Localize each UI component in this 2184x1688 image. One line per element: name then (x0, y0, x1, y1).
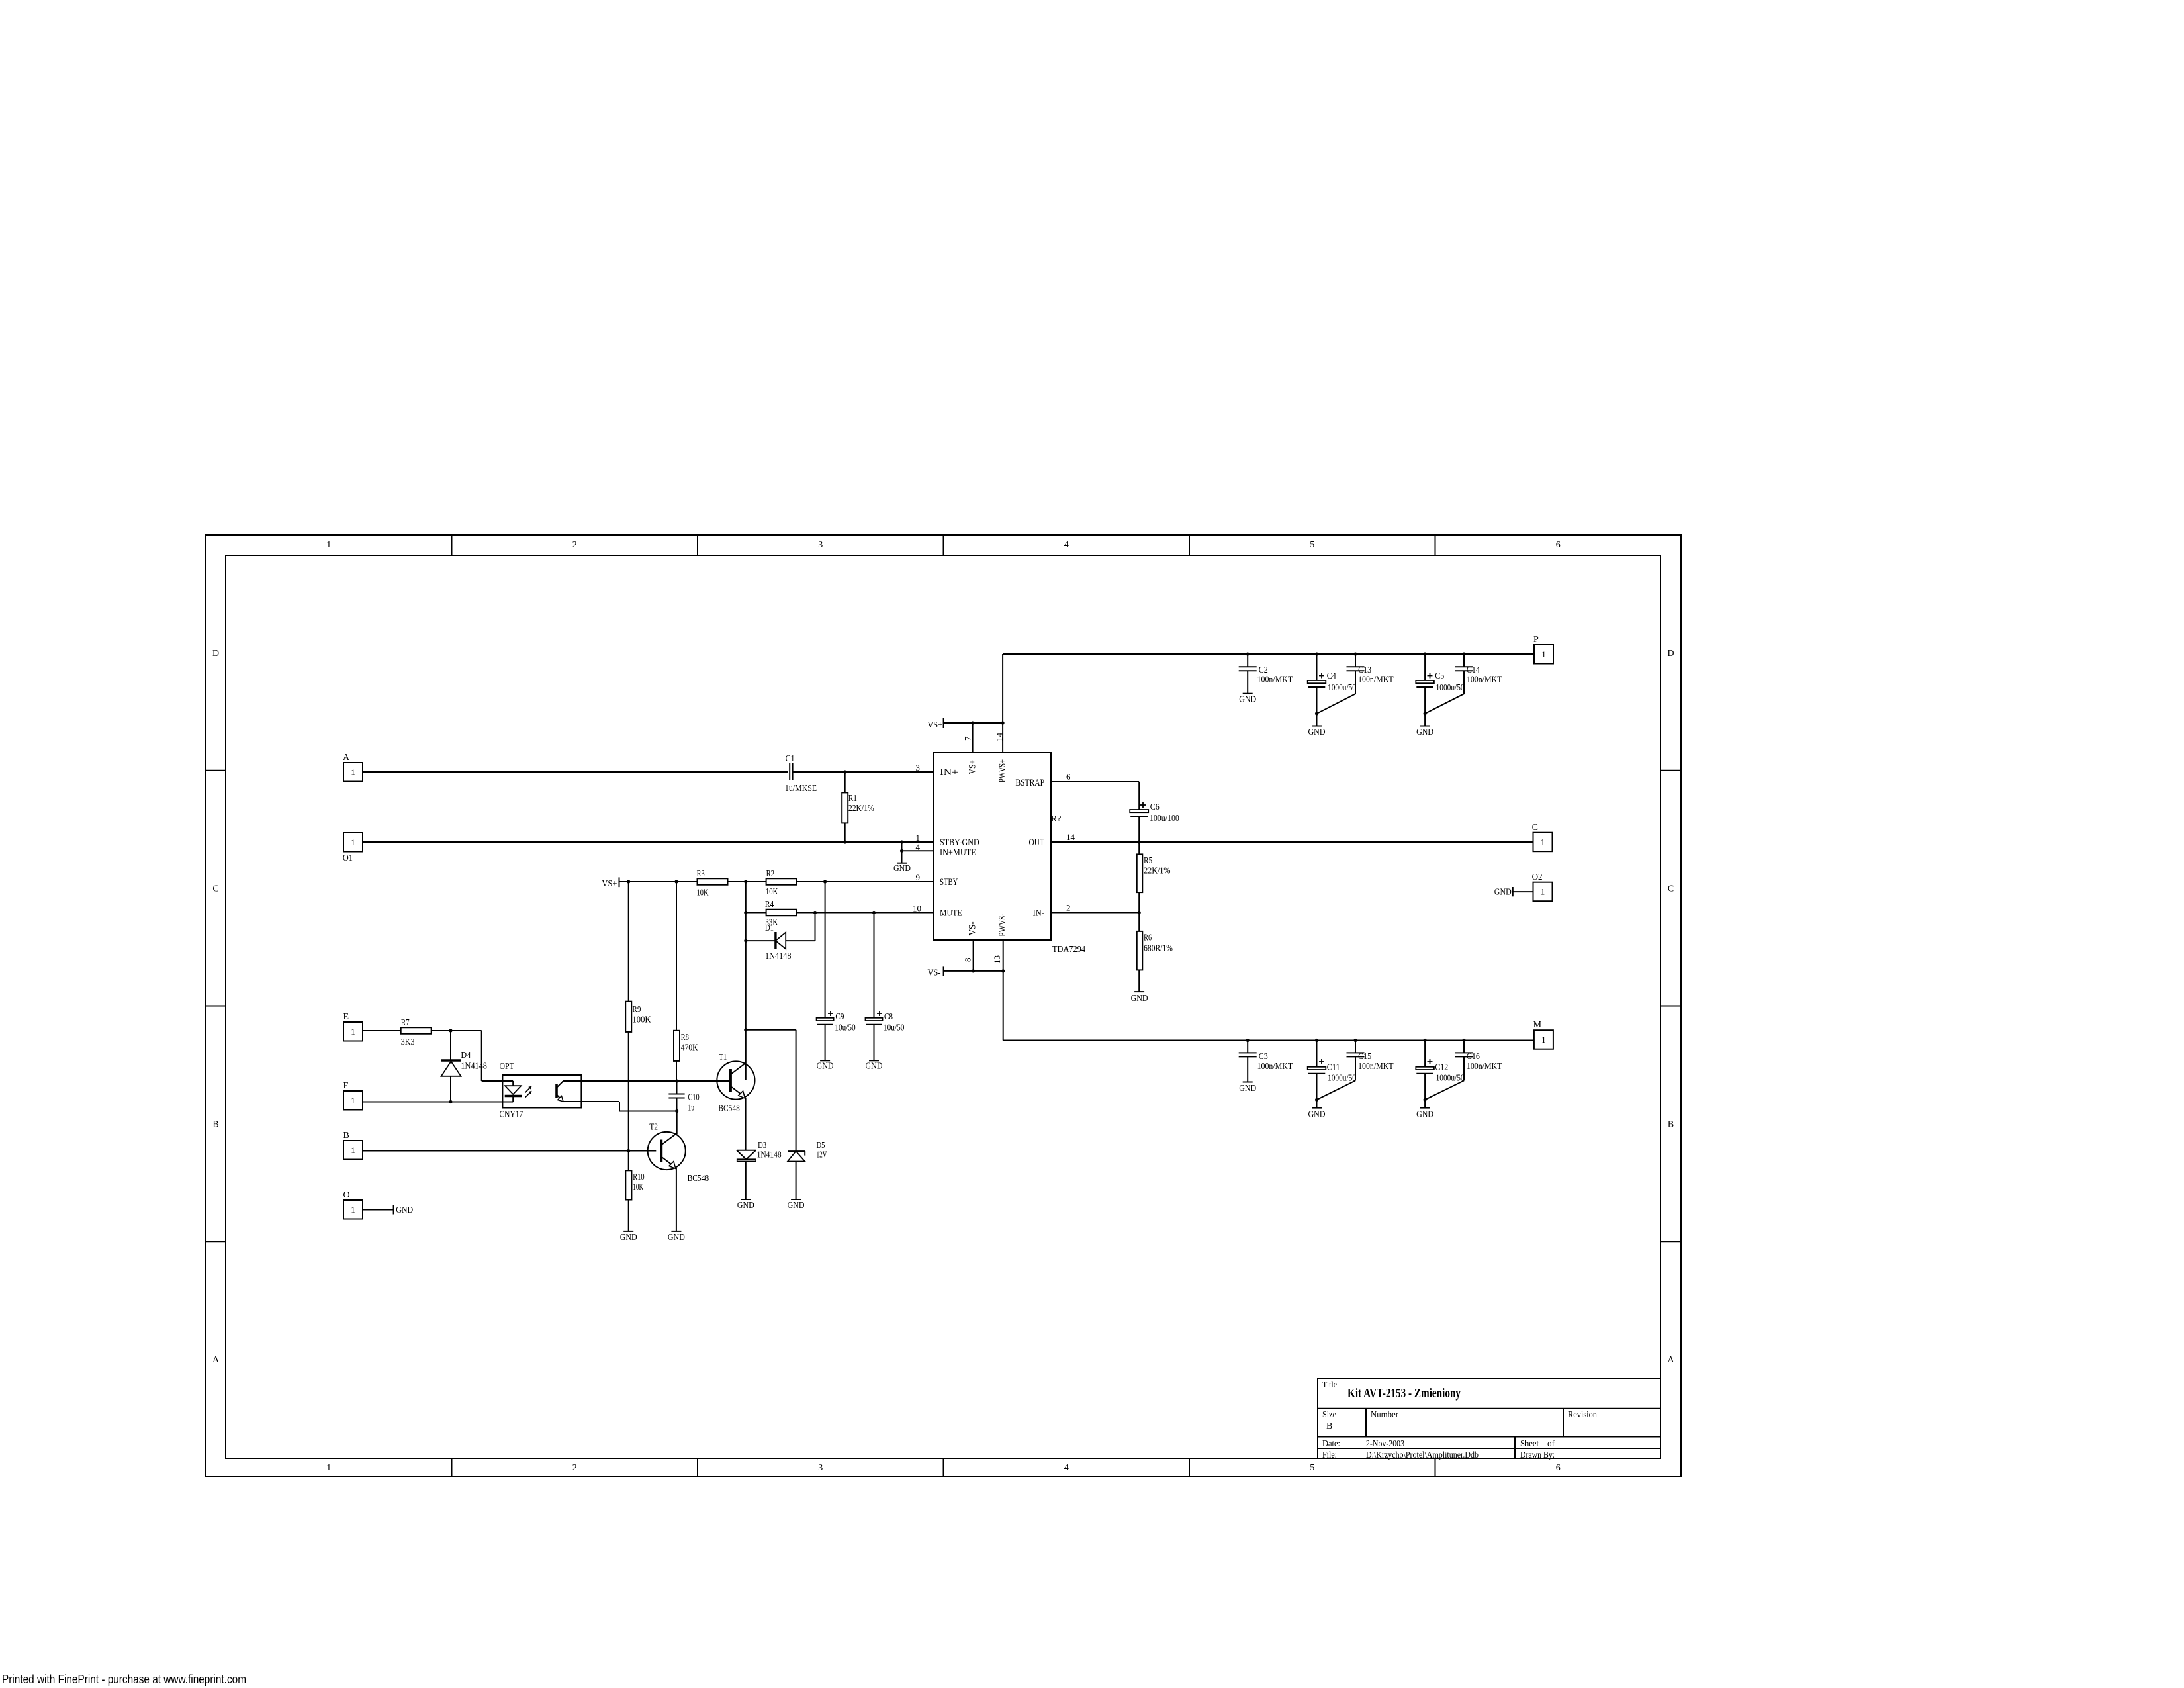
svg-text:3K3: 3K3 (401, 1037, 415, 1047)
svg-text:C1: C1 (786, 754, 795, 764)
svg-text:P: P (1533, 635, 1539, 645)
svg-text:BSTRAP: BSTRAP (1016, 778, 1045, 788)
svg-text:D: D (1667, 649, 1674, 659)
svg-text:Title: Title (1322, 1380, 1337, 1390)
svg-text:6: 6 (1066, 772, 1071, 782)
svg-text:100u/100: 100u/100 (1150, 814, 1179, 823)
svg-text:14: 14 (994, 733, 1004, 742)
svg-text:1000u/50: 1000u/50 (1436, 683, 1465, 693)
svg-text:D5: D5 (817, 1141, 825, 1150)
svg-text:100K: 100K (632, 1015, 651, 1025)
svg-text:E: E (343, 1012, 349, 1022)
svg-text:IN+MUTE: IN+MUTE (940, 847, 976, 858)
svg-text:1000u/50: 1000u/50 (1328, 1074, 1356, 1084)
svg-text:1u: 1u (688, 1103, 694, 1113)
svg-text:D:\Krzycho\Protel\Amplituner.D: D:\Krzycho\Protel\Amplituner.Ddb (1366, 1450, 1479, 1460)
svg-text:680R/1%: 680R/1% (1144, 944, 1173, 954)
svg-text:VS+: VS+ (967, 760, 978, 774)
svg-text:10u/50: 10u/50 (884, 1023, 904, 1033)
svg-text:1000u/50: 1000u/50 (1328, 683, 1356, 693)
svg-text:GND: GND (1416, 1110, 1433, 1120)
svg-text:GND: GND (1494, 888, 1512, 898)
svg-text:1: 1 (916, 833, 921, 843)
svg-text:VS-: VS- (928, 968, 941, 978)
svg-text:1: 1 (351, 1096, 355, 1105)
svg-text:1: 1 (1541, 837, 1545, 847)
svg-text:C6: C6 (1150, 802, 1160, 812)
svg-text:1N4148: 1N4148 (765, 951, 792, 961)
svg-text:C3: C3 (1259, 1052, 1268, 1062)
svg-text:TDA7294: TDA7294 (1052, 945, 1085, 955)
svg-text:B: B (212, 1119, 218, 1129)
svg-text:R10: R10 (633, 1172, 644, 1182)
svg-text:6: 6 (1556, 540, 1561, 550)
svg-text:T1: T1 (719, 1053, 727, 1062)
svg-text:MUTE: MUTE (940, 908, 962, 919)
svg-text:R5: R5 (1144, 856, 1152, 866)
svg-text:1: 1 (351, 767, 355, 777)
svg-text:C2: C2 (1259, 665, 1268, 675)
svg-text:O: O (343, 1190, 350, 1200)
svg-text:10u/50: 10u/50 (835, 1023, 855, 1033)
svg-text:1: 1 (1541, 886, 1545, 896)
svg-text:GND: GND (866, 1062, 883, 1072)
svg-text:GND: GND (817, 1062, 834, 1072)
svg-text:Size: Size (1322, 1410, 1336, 1420)
svg-text:GND: GND (737, 1201, 754, 1211)
svg-text:D3: D3 (758, 1141, 766, 1150)
svg-text:IN-: IN- (1033, 908, 1044, 919)
svg-text:C11: C11 (1327, 1063, 1340, 1073)
svg-text:of: of (1547, 1439, 1555, 1449)
svg-text:BC548: BC548 (718, 1104, 740, 1114)
svg-text:100n/MKT: 100n/MKT (1257, 1062, 1293, 1072)
svg-text:10: 10 (913, 904, 921, 914)
svg-text:1N4148: 1N4148 (757, 1150, 782, 1160)
svg-text:3: 3 (916, 763, 921, 773)
svg-text:C9: C9 (835, 1012, 844, 1022)
svg-text:470K: 470K (681, 1043, 698, 1053)
svg-text:4: 4 (1064, 1463, 1069, 1473)
svg-text:F: F (343, 1081, 349, 1091)
svg-text:GND: GND (1239, 1084, 1256, 1094)
svg-text:GND: GND (1308, 727, 1326, 737)
svg-text:GND: GND (668, 1233, 685, 1243)
svg-text:1: 1 (351, 1145, 355, 1155)
svg-text:3: 3 (818, 1463, 823, 1473)
svg-text:1: 1 (326, 540, 331, 550)
svg-text:T2: T2 (649, 1123, 658, 1133)
svg-text:R8: R8 (681, 1033, 689, 1043)
svg-text:100n/MKT: 100n/MKT (1467, 675, 1502, 685)
svg-text:R1: R1 (848, 794, 857, 804)
svg-text:100n/MKT: 100n/MKT (1257, 675, 1293, 685)
svg-text:BC548: BC548 (688, 1174, 709, 1184)
svg-text:B: B (343, 1131, 349, 1141)
svg-text:100n/MKT: 100n/MKT (1358, 675, 1394, 685)
svg-text:PWVS+: PWVS+ (997, 759, 1008, 782)
svg-text:GND: GND (1416, 727, 1433, 737)
svg-text:STBY: STBY (940, 877, 958, 888)
svg-text:C5: C5 (1435, 671, 1444, 681)
svg-text:VS+: VS+ (927, 720, 942, 730)
svg-text:22K/1%: 22K/1% (848, 804, 874, 814)
svg-text:R3: R3 (697, 869, 705, 879)
svg-text:12V: 12V (817, 1150, 827, 1160)
svg-text:1: 1 (1541, 649, 1546, 659)
svg-text:B: B (1668, 1119, 1674, 1129)
svg-text:1: 1 (351, 837, 355, 847)
svg-text:5: 5 (1310, 1463, 1314, 1473)
svg-text:GND: GND (788, 1201, 805, 1211)
svg-text:C4: C4 (1327, 671, 1336, 681)
svg-text:C: C (1532, 823, 1538, 833)
svg-text:R?: R? (1051, 814, 1061, 824)
svg-text:A: A (212, 1355, 220, 1365)
svg-text:Drawn By:: Drawn By: (1520, 1450, 1555, 1460)
svg-text:STBY-GND: STBY-GND (940, 837, 979, 848)
svg-text:22K/1%: 22K/1% (1144, 867, 1171, 876)
svg-text:Sheet: Sheet (1520, 1439, 1539, 1449)
svg-text:C12: C12 (1435, 1063, 1448, 1073)
svg-text:C: C (1668, 884, 1674, 894)
svg-text:1N4148: 1N4148 (461, 1062, 487, 1072)
svg-text:GND: GND (1131, 994, 1148, 1004)
svg-text:2: 2 (1066, 903, 1071, 913)
svg-text:1: 1 (351, 1205, 355, 1215)
svg-text:D: D (212, 649, 219, 659)
svg-text:VS+: VS+ (602, 879, 617, 889)
svg-text:100n/MKT: 100n/MKT (1467, 1062, 1502, 1072)
svg-text:R6: R6 (1144, 933, 1152, 943)
svg-text:C16: C16 (1467, 1052, 1480, 1062)
svg-text:13: 13 (992, 955, 1002, 964)
svg-text:10K: 10K (633, 1182, 643, 1192)
svg-text:GND: GND (1239, 695, 1256, 705)
svg-text:IN+: IN+ (940, 767, 958, 778)
svg-text:R9: R9 (632, 1005, 641, 1015)
svg-text:R7: R7 (401, 1018, 410, 1028)
svg-text:C14: C14 (1467, 665, 1480, 675)
svg-text:1: 1 (326, 1463, 331, 1473)
svg-text:C: C (212, 884, 218, 894)
svg-text:14: 14 (1066, 832, 1075, 842)
svg-text:2: 2 (572, 1463, 577, 1473)
svg-text:O1: O1 (343, 853, 353, 863)
svg-text:4: 4 (1064, 540, 1069, 550)
svg-text:A: A (343, 753, 350, 763)
svg-text:4: 4 (916, 842, 921, 852)
svg-text:3: 3 (818, 540, 823, 550)
svg-text:9: 9 (916, 872, 921, 882)
svg-text:VS-: VS- (967, 921, 978, 935)
svg-text:CNY17: CNY17 (500, 1110, 523, 1120)
svg-text:Kit AVT-2153 - Zmieniony: Kit AVT-2153 - Zmieniony (1347, 1386, 1461, 1401)
svg-text:2: 2 (572, 540, 577, 550)
svg-text:OUT: OUT (1029, 837, 1045, 848)
svg-text:7: 7 (963, 736, 973, 741)
svg-text:C10: C10 (688, 1093, 699, 1103)
svg-text:D4: D4 (461, 1051, 471, 1060)
svg-text:B: B (1326, 1421, 1332, 1431)
svg-text:6: 6 (1556, 1463, 1561, 1473)
svg-text:R2: R2 (766, 869, 775, 879)
svg-text:A: A (1667, 1355, 1674, 1365)
svg-text:8: 8 (963, 958, 973, 962)
svg-text:PWVS-: PWVS- (997, 914, 1008, 937)
svg-text:Date:: Date: (1322, 1439, 1340, 1449)
svg-text:C13: C13 (1358, 665, 1371, 675)
svg-text:1: 1 (1541, 1035, 1546, 1045)
svg-text:10K: 10K (766, 887, 778, 897)
svg-text:M: M (1533, 1020, 1542, 1030)
svg-text:File:: File: (1322, 1450, 1337, 1460)
svg-text:1: 1 (351, 1027, 355, 1037)
svg-text:100n/MKT: 100n/MKT (1358, 1062, 1394, 1072)
svg-text:GND: GND (396, 1205, 413, 1215)
svg-text:Revision: Revision (1568, 1410, 1597, 1420)
svg-text:Number: Number (1371, 1410, 1398, 1420)
svg-text:5: 5 (1310, 540, 1314, 550)
svg-text:GND: GND (620, 1233, 637, 1243)
svg-text:10K: 10K (697, 888, 709, 898)
svg-text:2-Nov-2003: 2-Nov-2003 (1366, 1439, 1404, 1449)
svg-text:GND: GND (1308, 1110, 1326, 1120)
svg-text:D1: D1 (765, 923, 774, 933)
svg-text:C15: C15 (1358, 1052, 1371, 1062)
svg-text:O2: O2 (1532, 872, 1543, 882)
svg-text:Printed with FinePrint - purch: Printed with FinePrint - purchase at www… (2, 1673, 246, 1686)
svg-text:C8: C8 (884, 1012, 893, 1022)
svg-text:R4: R4 (765, 900, 774, 910)
svg-text:1u/MKSE: 1u/MKSE (785, 784, 817, 794)
svg-text:GND: GND (893, 864, 911, 874)
svg-text:1000u/50: 1000u/50 (1436, 1074, 1465, 1084)
svg-text:OPT: OPT (500, 1062, 515, 1072)
